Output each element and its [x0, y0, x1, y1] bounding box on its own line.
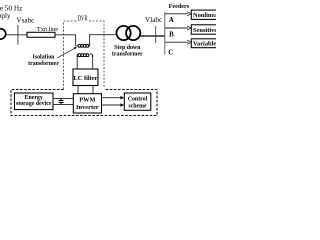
- bus tick at Vlabc: [155, 26, 157, 43]
- svg-text:pply: pply: [0, 11, 11, 20]
- svg-text:transformer: transformer: [112, 52, 143, 58]
- step-down transformer symbol: [117, 26, 131, 40]
- annotation arrow to isolation transformer: [58, 48, 75, 58]
- svg-text:Vlabc: Vlabc: [145, 16, 162, 24]
- feeder line B with arrow: [165, 27, 188, 29]
- svg-text:PWM: PWM: [79, 96, 95, 103]
- svg-text:Vsabc: Vsabc: [16, 16, 34, 24]
- load box C: [191, 39, 218, 48]
- svg-text:C: C: [168, 49, 173, 56]
- LC filter box: [73, 69, 98, 86]
- svg-text:Variable: Variable: [193, 41, 216, 48]
- svg-text:DVR: DVR: [78, 16, 88, 23]
- feeder line C with arrow: [165, 41, 188, 43]
- svg-text:Step down: Step down: [114, 45, 141, 51]
- feeder line A with arrow: [165, 13, 188, 15]
- svg-text:scheme: scheme: [128, 103, 147, 109]
- svg-text:Sensitive: Sensitive: [193, 27, 216, 34]
- svg-text:B: B: [169, 31, 174, 38]
- source generator (3-phase supply): [0, 29, 6, 39]
- svg-text:storage device: storage device: [16, 101, 52, 107]
- wire: supply to Txn line box: [6, 34, 27, 36]
- wire: transformer to feeder bus: [140, 35, 165, 37]
- svg-text:LC filter: LC filter: [74, 75, 98, 82]
- transmission line box: [27, 32, 55, 37]
- injection transformer secondary winding: [77, 54, 93, 57]
- energy storage box: [15, 93, 54, 110]
- wires: secondary winding down to LC filter: [77, 57, 93, 70]
- dc link wires: [53, 98, 73, 104]
- svg-text:Feeders: Feeders: [169, 3, 190, 10]
- svg-text:transformer: transformer: [28, 61, 59, 67]
- svg-text:Txn line: Txn line: [37, 26, 58, 33]
- load box A: [191, 10, 218, 19]
- injection transformer primary winding: [78, 45, 89, 48]
- svg-text:Control: Control: [128, 96, 148, 102]
- control scheme box: [124, 93, 151, 110]
- svg-text:Inverter: Inverter: [76, 104, 99, 111]
- wires: LC filter to PWM inverter: [78, 86, 93, 94]
- bus tick at Vsabc: [17, 25, 19, 45]
- svg-text:A: A: [169, 17, 174, 24]
- wires: PWM inverter to control scheme with arrows: [102, 98, 122, 105]
- outer dashed enclosure (DVR power circuit): [11, 90, 157, 116]
- svg-text:Nonlinear: Nonlinear: [193, 12, 216, 19]
- load box B: [191, 25, 218, 34]
- svg-text:Isolation: Isolation: [33, 54, 56, 60]
- wire: injection transformer to step-down transformer: [89, 35, 117, 46]
- PWM inverter box: [73, 94, 101, 113]
- DVR dashed enclosure: [64, 21, 104, 89]
- svg-text:Energy: Energy: [25, 95, 43, 101]
- wire: Txn line to injection transformer primary: [55, 35, 78, 46]
- dc link capacitor: [59, 98, 64, 104]
- feeder bus: [164, 12, 166, 54]
